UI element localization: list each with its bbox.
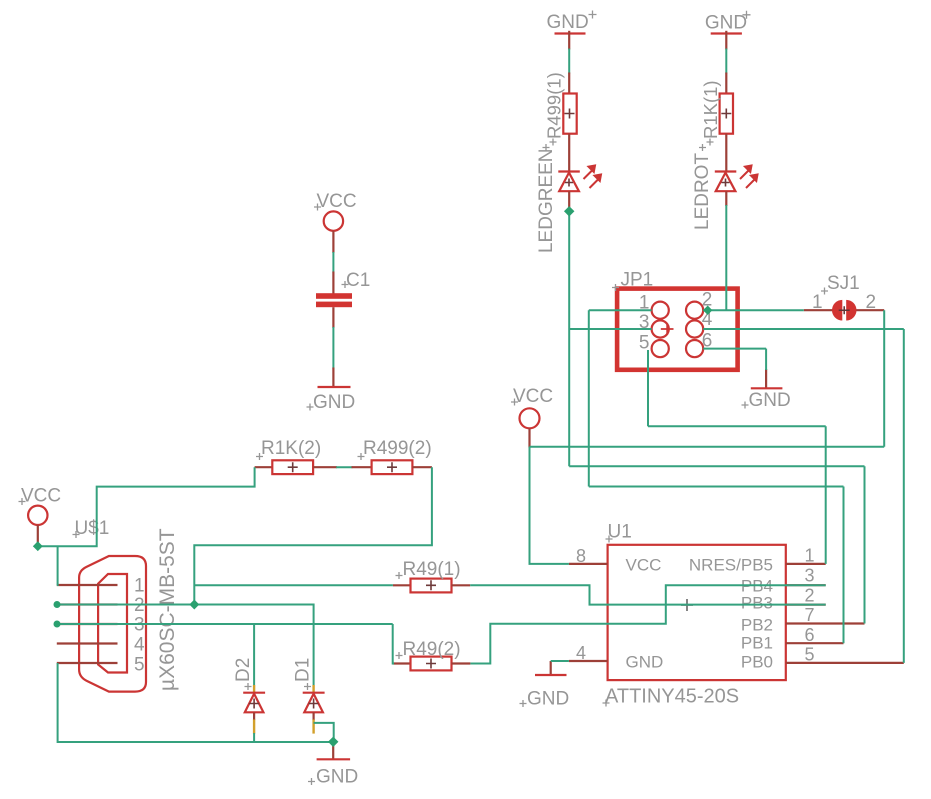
junction (bottom GND rail) [328,737,338,747]
resistor R1K(2) [255,438,337,474]
solder jumper SJ1 [804,273,884,321]
wire R499(2) down to pin 2 junction [194,467,432,604]
wire SJ1 pin 2 down [883,310,885,447]
U$1 pin 5 [57,662,118,664]
wire [568,49,570,74]
resistor R1K(1) [700,73,733,172]
wire VCC to SJ1 pin 2 [530,446,885,448]
svg-text:PB0: PB0 [741,653,773,672]
wire VCC left junction to R1K(2) [38,467,255,546]
svg-text:R499(1): R499(1) [543,72,564,139]
wire down to R49(2) [393,624,394,664]
supply VCC (left, USB) [19,486,62,547]
svg-text:GND: GND [626,653,664,672]
wire junction to D1 [194,605,313,686]
svg-text:PB3: PB3 [741,594,773,613]
connector U$1 (USB X60SC-MB-5ST) [57,518,179,692]
U$1 pin 1 [57,584,118,586]
U1 pin 2 PB3 [786,603,826,605]
wire USB pin 3 net [57,623,393,625]
svg-text:R49(1): R49(1) [403,559,461,580]
wire USB pin 2 net [57,604,194,606]
svg-text:VCC: VCC [626,556,662,575]
LED LEDGREEN [536,144,601,253]
svg-text:LEDGREEN: LEDGREEN [536,148,557,253]
wire USB pin 5 to ground rail [58,663,334,742]
JP1 pin 2 [686,302,703,319]
svg-text:R499(2): R499(2) [363,438,432,459]
svg-text:D1: D1 [293,658,314,682]
wire R49(2) to PB4 [470,585,825,663]
JP1 pin 6 [686,340,703,357]
svg-text:5: 5 [134,655,145,676]
resistor R499(1) [543,72,576,171]
svg-text:PB1: PB1 [741,634,773,653]
wire NRES across [648,425,826,427]
U1 pin 7 PB2 [786,622,865,624]
JP1 pin 5 [652,340,669,357]
wire LEDGREEN net down [568,211,570,466]
wire JP1 pin 4 to PB0 [703,328,904,330]
U$1 pin 4 [57,642,118,644]
U1 pin 6 PB1 [786,642,844,644]
supply VCC (mid, near U1) [511,386,553,448]
IC U1 ATTINY45-20S [569,522,904,708]
svg-text:R1K(2): R1K(2) [261,438,321,459]
svg-text:C1: C1 [346,270,370,291]
JP1 pin 3 [652,320,669,337]
svg-text:R1K(1): R1K(1) [700,80,721,139]
U1 pin 8 VCC [569,563,608,565]
diode D1 (zener) [293,658,325,734]
wire D1 hook to rail [314,723,334,742]
svg-text:GND: GND [316,767,358,788]
supply VCC (C1 branch) [314,191,357,253]
wire VCC down to U1 pin 8 [530,447,569,564]
resistor R49(1) [393,559,470,592]
wire VCC junction to USB pin 1 [56,546,59,585]
ground GND (under C1) [307,368,356,414]
resistor R49(2) [393,639,471,670]
svg-text:7: 7 [805,605,815,625]
ground GND (bottom, under D1) [308,742,358,788]
U$1 pin 2 [57,603,118,605]
svg-text:4: 4 [134,635,145,656]
wire [725,49,727,74]
connector JP1 [612,270,738,370]
svg-text:4: 4 [576,643,586,663]
svg-text:1: 1 [805,546,815,566]
resistor R499(2) [352,438,432,474]
wire down to U1 pin 6 [843,487,845,644]
JP1 origin cross [661,324,674,335]
wire down to U1 pin 7 [864,466,866,623]
svg-text:VCC: VCC [317,191,357,212]
svg-text:VCC: VCC [513,386,553,407]
wire [332,327,334,369]
svg-text:GND: GND [547,12,589,33]
svg-text:JP1: JP1 [621,270,654,291]
junction (LEDGREEN) [564,206,574,216]
junction (USB pin 2 / D- net) [189,600,199,610]
svg-text:1: 1 [812,292,823,313]
ground GND (right of JP1) [742,369,791,411]
ground GND (under U1 pin 4) [520,661,570,710]
LED LEDROT [692,144,758,230]
JP1 pin 1 [652,302,669,319]
svg-text:6: 6 [805,625,815,645]
wire down to U1 pin 5 [903,329,905,663]
wire junction to R49(1) [194,584,393,586]
U1 pin 1 NRES/PB5 [786,563,826,565]
U1 pin 4 GND [569,660,608,662]
wire LEDGREEN net to PB2 [569,465,864,467]
svg-text:GND: GND [527,689,569,710]
U1 pin 3 PB4 [786,584,826,586]
svg-text:5: 5 [805,645,815,665]
wire [332,252,334,273]
node USB pin 2 end dot [54,601,61,608]
wire branch down to D2 [253,624,255,685]
wire JP1 pin 6 right [703,348,766,350]
svg-text:3: 3 [805,566,815,586]
svg-text:PB2: PB2 [741,616,773,635]
svg-text:2: 2 [866,292,877,313]
wire down to U1 pin 1 [825,426,827,564]
ground GND (top, LEDROT branch) [705,11,751,50]
diode D2 (zener) [233,658,265,734]
capacitor C1 [316,270,370,328]
wire U1 pin 4 to GND [551,660,569,662]
ground GND (top, LEDGREEN branch) [547,11,597,50]
svg-text:8: 8 [576,546,586,566]
svg-text:1: 1 [134,576,145,597]
wire JP1 pin 2 to SJ1 pin 1 [703,309,804,311]
svg-text:D2: D2 [233,658,254,682]
svg-text:LEDROT: LEDROT [692,153,713,230]
wire LEDROT net down [725,205,727,310]
svg-text:GND: GND [705,13,747,34]
node USB pin 3 end dot [54,621,61,628]
junction (JP1 pin 2) [703,306,712,315]
wire R49(1) to PB3 [470,585,826,604]
svg-text:ATTINY45-20S: ATTINY45-20S [605,686,739,708]
svg-text:U$1: U$1 [75,518,110,539]
wire JP1 pin 3 to LEDGREEN net [569,328,651,330]
junction (VCC left) [33,541,43,551]
svg-text:µX60SC-MB-5ST: µX60SC-MB-5ST [156,528,179,691]
svg-text:R49(2): R49(2) [403,639,461,660]
svg-text:SJ1: SJ1 [827,273,860,294]
wire across to PB1 [589,486,844,488]
U$1 pin 3 [57,623,118,625]
wire JP1 pin 5 down (NRES) [647,350,649,426]
wire down to GND [765,349,767,370]
svg-text:NRES/PB5: NRES/PB5 [689,556,773,575]
wire [336,466,352,468]
U1 pin 5 PB0 [786,662,904,664]
JP1 pin 4 [686,320,703,337]
svg-text:VCC: VCC [21,486,61,507]
svg-text:GND: GND [313,392,355,413]
wire down from JP1 pin 1 [588,310,590,486]
svg-text:2: 2 [805,586,815,606]
wire JP1 pin 1 left [589,309,652,311]
svg-text:GND: GND [749,390,791,411]
wire D2 to rail [253,733,255,742]
